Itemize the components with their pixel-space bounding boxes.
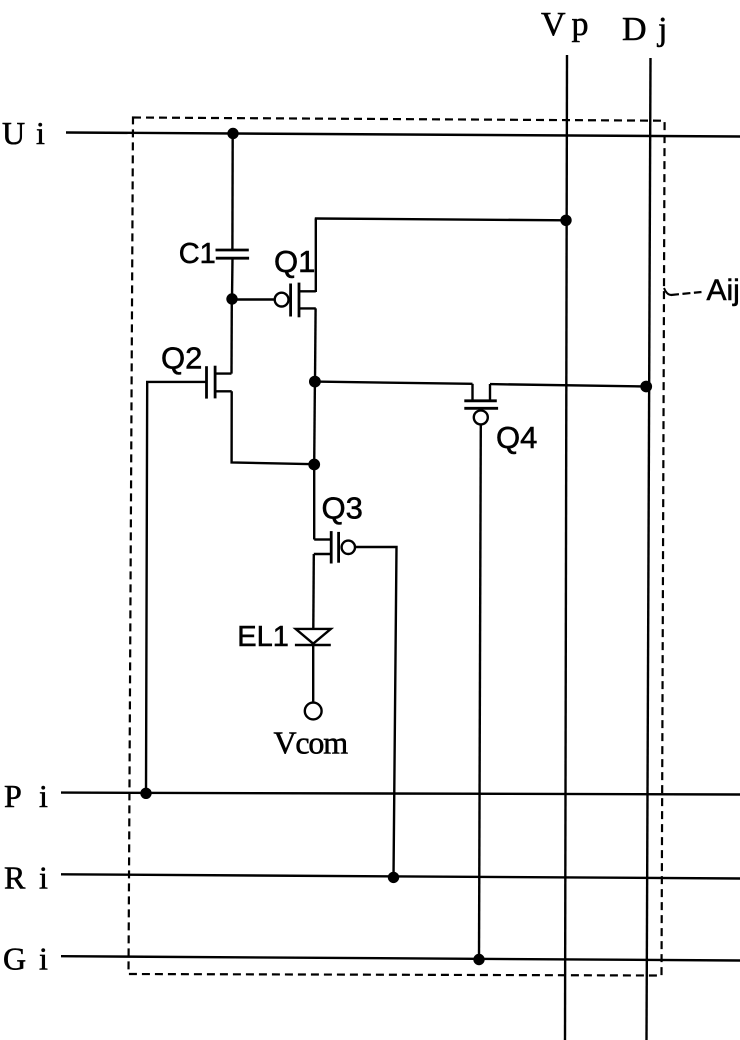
pixel cell boundary Aij (dashed) — [129, 118, 665, 976]
wire Ui junction down to C1 — [231, 134, 234, 251]
svg-text:Aij: Aij — [707, 274, 740, 307]
wire C1 to Q1 gate node — [231, 258, 234, 299]
net label Vp — [541, 6, 589, 43]
svg-text:R: R — [4, 860, 26, 896]
capacitor C1 — [216, 250, 250, 258]
junction node at Q1 gate / C1 — [226, 293, 237, 304]
net label Gi — [3, 940, 48, 976]
wire Dj column line — [647, 58, 651, 1040]
svg-text:p: p — [572, 6, 589, 43]
wire lower node down to Q3 drain — [313, 465, 315, 540]
junction on Pi — [140, 788, 151, 799]
leader line to Aij — [664, 288, 672, 295]
svg-text:P: P — [4, 778, 22, 814]
wire Q4 right arm to Dj — [490, 384, 646, 386]
wire Q1 source down to mid node — [314, 308, 317, 381]
junction on Vp — [560, 215, 571, 226]
svg-text:U: U — [2, 115, 25, 151]
junction on Dj — [640, 381, 652, 393]
junction on Ui at C1 branch — [227, 128, 238, 139]
wire Pi row line — [61, 793, 740, 795]
wire mid node to Q4 left arm — [315, 382, 473, 384]
wire gate node to Q1 bubble — [232, 298, 274, 300]
wire EL1 to Vcom terminal — [312, 645, 314, 702]
wire Q2 bottom arm down then right to lower node — [232, 391, 315, 464]
wire Q2 gate left and down to Pi — [146, 382, 206, 793]
net label Ui — [2, 115, 45, 151]
wire Ui row line — [66, 133, 740, 137]
wire mid node down to lower node — [313, 382, 316, 465]
wire Gi row line — [61, 956, 740, 960]
net label Dj — [622, 11, 667, 48]
wire top node to Vp — [315, 219, 566, 221]
svg-text:j: j — [657, 11, 667, 48]
svg-text:Q3: Q3 — [322, 491, 363, 526]
svg-text:i: i — [39, 778, 48, 814]
svg-text:Q4: Q4 — [496, 420, 537, 455]
svg-text:i: i — [39, 940, 48, 976]
terminal Vcom — [305, 703, 322, 720]
svg-text:D: D — [622, 11, 647, 48]
transistor Q4 — [464, 384, 498, 425]
net label Pi — [4, 778, 48, 814]
transistor Q2 — [207, 366, 232, 399]
svg-text:Vcom: Vcom — [274, 725, 349, 761]
svg-text:C1: C1 — [179, 238, 216, 270]
net label Ri — [4, 860, 48, 896]
wire Ri row line — [61, 874, 740, 878]
junction on Gi — [473, 954, 484, 965]
wire Vp column line — [565, 55, 567, 1040]
wire Q1 drain up — [315, 219, 317, 293]
svg-text:Q1: Q1 — [274, 244, 315, 279]
wire Q4 gate down to Gi — [479, 424, 481, 959]
diode EL1 — [295, 629, 331, 645]
svg-text:EL1: EL1 — [237, 621, 289, 653]
svg-text:Q2: Q2 — [161, 341, 202, 376]
transistor Q3 — [314, 531, 355, 563]
svg-text:i: i — [39, 860, 48, 896]
svg-text:i: i — [36, 115, 45, 151]
wire Q2 top arm up to gate node — [230, 299, 233, 374]
transistor Q1 — [275, 283, 316, 318]
mid node junction — [309, 376, 321, 388]
wire Q3 source down to EL1 — [312, 554, 315, 629]
svg-text:V: V — [541, 6, 566, 43]
junction on Ri — [388, 872, 399, 883]
svg-text:G: G — [3, 940, 26, 976]
wire Q3 gate right and down to Ri — [356, 547, 397, 877]
lower node junction — [308, 459, 320, 471]
